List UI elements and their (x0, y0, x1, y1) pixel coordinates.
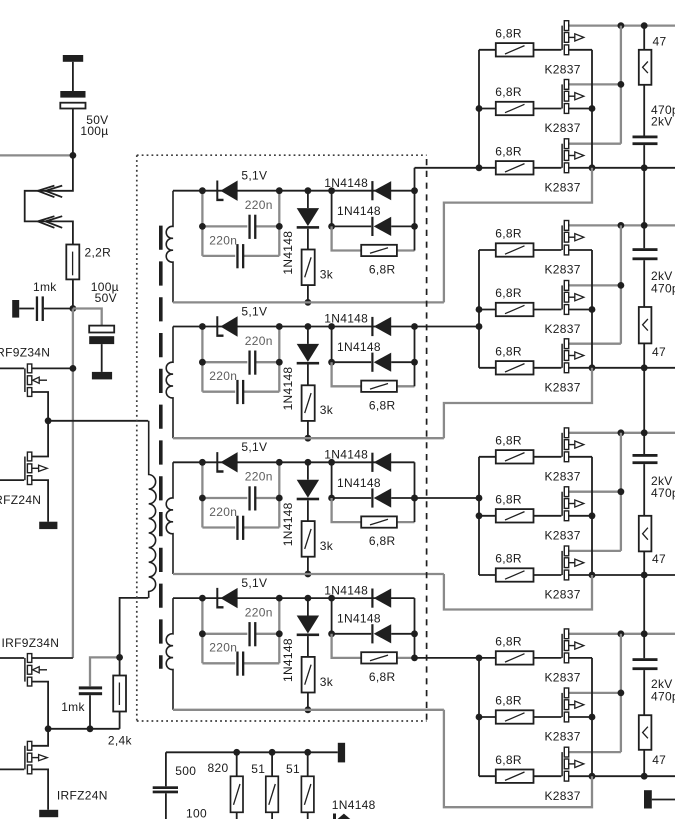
wire source rail group4 (569, 775, 675, 777)
wire bottom rail (173, 301, 444, 303)
transistor Q2 IRFZ24N (0, 479, 24, 481)
secondary winding L4 (166, 598, 173, 710)
svg-text:220n: 220n (209, 641, 237, 655)
wire drain bus group1 (620, 26, 622, 144)
capacitor C2b 220n (236, 380, 238, 404)
node (305, 706, 312, 713)
node (199, 495, 206, 502)
wire gate bus group4 (478, 658, 480, 776)
wire drain bus group2 (620, 225, 622, 343)
svg-text:K2837: K2837 (545, 789, 581, 803)
svg-text:47: 47 (652, 552, 666, 566)
wire 6,8R branch (332, 634, 361, 658)
wire drain bus group4 (620, 634, 622, 752)
node D (45, 417, 52, 424)
node (589, 105, 596, 112)
wire Q4 drain (32, 729, 48, 746)
wire branch A (202, 497, 247, 499)
svg-text:6,8R: 6,8R (495, 753, 522, 767)
diode D2c 1N4148 (371, 317, 373, 336)
wire branch B (202, 255, 235, 257)
wire drain lead M2 (569, 491, 621, 493)
wire (73, 309, 102, 326)
resistor R2b 6,8R (361, 381, 397, 392)
svg-text:100: 100 (186, 807, 207, 819)
transistor g2m3 K2837 (534, 367, 562, 369)
wire branch vertical left (201, 462, 203, 527)
svg-text:1N4148: 1N4148 (337, 612, 381, 626)
node gate bus (476, 714, 483, 721)
wire branch vertical right (278, 462, 280, 527)
node (589, 164, 596, 171)
transistor g1m3 K2837 (534, 167, 562, 169)
wire top rail (173, 326, 415, 328)
node B (70, 305, 77, 312)
wire source bus group3 (591, 457, 593, 575)
resistor 51 first (271, 752, 273, 776)
transistor g4m3 K2837 (534, 775, 562, 777)
svg-text:K2837: K2837 (545, 263, 581, 277)
wire feed block3 (415, 497, 480, 499)
svg-text:51: 51 (286, 762, 300, 776)
svg-text:K2837: K2837 (545, 588, 581, 602)
wire feed block1 (415, 167, 480, 169)
svg-text:1N4148: 1N4148 (281, 502, 295, 546)
wire diode branch (332, 191, 372, 227)
wire bottom rail (173, 573, 444, 575)
diode D4d 1N4148 (371, 624, 373, 643)
svg-text:47: 47 (652, 345, 666, 359)
node (618, 81, 625, 88)
wire 6,8R branch (332, 362, 361, 386)
capacitor C3b 220n (236, 516, 238, 540)
node (328, 595, 335, 602)
wire source lead M1 (569, 657, 592, 659)
wire gate bus group2 (478, 250, 480, 368)
wire 6,8R branch (332, 226, 361, 250)
node gate bus (476, 164, 483, 171)
wire bottom rail (173, 709, 444, 711)
wire bus link 2-3 (643, 368, 645, 433)
wire (643, 670, 645, 715)
node F (87, 725, 94, 732)
diode bottom clipped (333, 814, 336, 819)
secondary winding L1 (166, 191, 173, 303)
wire main vertical (72, 309, 74, 659)
wire branch B (202, 662, 235, 664)
wire (19, 308, 34, 310)
wire Q4 source (32, 769, 48, 809)
node gate bus (476, 105, 483, 112)
transistor g1m2 K2837 (534, 108, 562, 110)
node C (70, 365, 77, 372)
node (305, 435, 312, 442)
wire branch B (202, 391, 235, 393)
node (328, 187, 335, 194)
wire (643, 433, 645, 454)
node (199, 359, 206, 366)
node gate bus (476, 495, 483, 502)
resistor 6,8R gate g3m3 (479, 574, 496, 576)
wire right vertical (414, 168, 416, 251)
wire primary bottom link (120, 598, 149, 658)
wire gate rail bottom (48, 728, 120, 730)
wire drain lead M3 (569, 343, 621, 345)
svg-text:6,8R: 6,8R (495, 26, 522, 40)
wire Q3 drain (32, 657, 73, 659)
wire Q1 drain (32, 367, 73, 369)
wire drain lead M2 (569, 284, 621, 286)
node (618, 630, 625, 637)
wire Q3 source (32, 682, 48, 729)
wire (643, 85, 645, 136)
ground (39, 810, 58, 817)
node (199, 630, 206, 637)
svg-text:6,8R: 6,8R (369, 398, 396, 412)
svg-text:IRF9Z34N: IRF9Z34N (2, 636, 60, 650)
node (641, 773, 648, 780)
wire (165, 752, 167, 786)
node (618, 488, 625, 495)
node (199, 595, 206, 602)
wire (643, 260, 645, 307)
wire return group3 (444, 574, 592, 610)
node (199, 187, 206, 194)
node (199, 323, 206, 330)
wire diode branch (332, 327, 372, 363)
diode D1b 1N4148 vertical (307, 191, 309, 208)
diode D3d 1N4148 (371, 488, 373, 507)
wire branch vertical left (201, 191, 203, 256)
svg-text:1N4148: 1N4148 (337, 340, 381, 354)
diode D4b 1N4148 vertical (307, 598, 309, 615)
svg-text:5,1V: 5,1V (241, 576, 267, 590)
resistor 6,8R gate g1m3 (479, 167, 496, 169)
resistor 6,8R gate g3m1 (479, 456, 496, 458)
capacitor C2a 220n (248, 351, 250, 375)
wire (165, 793, 167, 819)
svg-text:220n: 220n (209, 233, 237, 247)
svg-text:6,8R: 6,8R (495, 85, 522, 99)
svg-text:100µ: 100µ (80, 124, 108, 138)
ground (92, 372, 112, 380)
svg-text:1N4148: 1N4148 (324, 583, 368, 597)
capacitor 500 (153, 786, 178, 789)
node (618, 222, 625, 229)
wire (44, 308, 73, 310)
node (641, 164, 648, 171)
node (328, 495, 335, 502)
node (305, 571, 312, 578)
wire return group1 (444, 168, 592, 303)
resistor R2a 3k (307, 365, 309, 386)
wire (643, 343, 645, 367)
transistor Q4 IRFZ24N (0, 768, 24, 770)
transistor g3m3 K2837 (534, 574, 562, 576)
node (305, 323, 312, 330)
wire source lead M1 (569, 49, 592, 51)
svg-text:2,2R: 2,2R (85, 246, 112, 260)
svg-text:220n: 220n (245, 470, 273, 484)
capacitor C1b 220n (236, 244, 238, 268)
resistor 6,8R gate g2m2 (479, 309, 496, 311)
svg-text:5,1V: 5,1V (241, 169, 267, 183)
svg-text:6,8R: 6,8R (495, 552, 522, 566)
svg-text:470p: 470p (651, 486, 675, 500)
svg-text:K2837: K2837 (545, 469, 581, 483)
transistor g3m1 K2837 (534, 456, 562, 458)
svg-text:220n: 220n (245, 334, 273, 348)
node (641, 429, 648, 436)
wire 6,8R branch (332, 498, 361, 522)
node (305, 187, 312, 194)
wire diode branch (332, 598, 372, 634)
wire to transformer primary (48, 420, 148, 422)
wire return group4 (444, 710, 592, 807)
wire source rail group2 (569, 367, 675, 369)
node (618, 690, 625, 697)
svg-text:1N4148: 1N4148 (281, 231, 295, 275)
wire source bus group2 (591, 250, 593, 368)
wire source lead M1 (569, 249, 592, 251)
capacitor 470p group4 (633, 658, 658, 661)
capacitor C4b 220n (236, 652, 238, 676)
wire branch vertical right (278, 191, 280, 256)
capacitor C4a 220n (248, 622, 250, 646)
diode D3c 1N4148 (371, 453, 373, 472)
wire (643, 225, 645, 248)
svg-text:3k: 3k (320, 539, 334, 553)
transformer primary winding (149, 421, 156, 598)
node (199, 459, 206, 466)
wire source lead M2 (569, 108, 592, 110)
svg-text:6,8R: 6,8R (495, 227, 522, 241)
wire branch A (202, 225, 247, 227)
capacitor 1mk lower (79, 686, 102, 689)
wire source lead M1 (569, 456, 592, 458)
zener D1a 5,1V (216, 181, 223, 202)
resistor R4a 3k (307, 636, 309, 657)
wire branch A (202, 361, 247, 363)
node (269, 749, 276, 756)
wire to left edge (0, 154, 73, 156)
resistor 6,8R gate g2m1 (479, 249, 496, 251)
wire branch B (202, 526, 235, 528)
terminal bar (12, 300, 19, 318)
wire bottom rail (173, 437, 444, 439)
wire branch A (202, 633, 247, 635)
wire drain bus group3 (620, 433, 622, 551)
resistor 6,8R gate g1m2 (479, 108, 496, 110)
svg-text:47: 47 (652, 753, 666, 767)
secondary winding L2 (166, 327, 173, 439)
svg-text:K2837: K2837 (545, 528, 581, 542)
wire loop with arrows (25, 155, 73, 244)
wire branch vertical right (278, 327, 280, 392)
node (589, 306, 596, 313)
svg-text:1mk: 1mk (61, 700, 85, 714)
wire diode branch (332, 462, 372, 498)
wire (652, 799, 675, 801)
resistor 51 second (307, 752, 309, 776)
wire Q1 source (32, 392, 48, 421)
svg-text:6,8R: 6,8R (369, 263, 396, 277)
node (233, 749, 240, 756)
arrow chevrons upper (38, 186, 55, 198)
wire bottom rail (166, 751, 338, 753)
node (305, 459, 312, 466)
wire gate bus group1 (478, 50, 480, 168)
transistor g2m1 K2837 (534, 249, 562, 251)
svg-text:IRF9Z34N: IRF9Z34N (0, 346, 50, 360)
resistor R1a 3k (307, 229, 309, 250)
wire (72, 279, 74, 308)
svg-text:470p: 470p (651, 690, 675, 704)
svg-text:1N4148: 1N4148 (324, 176, 368, 190)
diode D1d 1N4148 (371, 217, 373, 236)
svg-text:500: 500 (175, 764, 196, 778)
wire branch vertical left (201, 598, 203, 663)
svg-text:5,1V: 5,1V (241, 440, 267, 454)
resistor 6,8R gate g1m1 (479, 49, 496, 51)
resistor R4b 6,8R (361, 652, 397, 663)
dashed enclosure box (137, 154, 427, 156)
node (641, 222, 648, 229)
wire branch vertical right (278, 598, 280, 663)
svg-text:220n: 220n (245, 198, 273, 212)
capacitor C2 100u 50V (89, 326, 114, 333)
svg-text:820: 820 (208, 761, 229, 775)
wire (119, 657, 121, 675)
node (641, 22, 648, 29)
node (589, 512, 596, 519)
wire (72, 109, 74, 156)
node gate bus (476, 655, 483, 662)
wire drain rail group2 (569, 224, 675, 226)
arrow chevrons lower (38, 216, 55, 228)
svg-text:220n: 220n (209, 369, 237, 383)
node (641, 572, 648, 579)
node A (70, 152, 77, 159)
resistor 6,8R gate g4m3 (479, 775, 496, 777)
node (305, 595, 312, 602)
terminal bottom right (644, 790, 652, 808)
wire Q2 drain (32, 421, 48, 457)
node (618, 282, 625, 289)
wire drain rail group1 (569, 24, 675, 26)
zener D4a 5,1V (216, 588, 223, 609)
wire Q2 source (32, 480, 48, 522)
diode D4c 1N4148 (371, 589, 373, 608)
svg-text:K2837: K2837 (545, 180, 581, 194)
node (328, 359, 335, 366)
capacitor 470p group3 (633, 454, 658, 457)
capacitor 470p group2 (633, 248, 658, 251)
svg-text:50V: 50V (95, 291, 117, 305)
zener D3a 5,1V (216, 452, 223, 473)
wire source bus group1 (591, 50, 593, 168)
svg-text:2,4k: 2,4k (108, 734, 133, 748)
transistor Q3 IRF9Z34N (0, 657, 24, 659)
node (589, 773, 596, 780)
svg-text:3k: 3k (320, 267, 334, 281)
wire right vertical (414, 327, 416, 387)
wire top rail (173, 190, 415, 192)
resistor 2,4k (113, 676, 126, 712)
wire source lead M2 (569, 309, 592, 311)
resistor R1b 6,8R (361, 245, 397, 256)
svg-text:6,8R: 6,8R (495, 344, 522, 358)
svg-text:470p: 470p (651, 281, 675, 295)
svg-text:220n: 220n (209, 505, 237, 519)
wire (89, 695, 91, 729)
wire gate bus group3 (478, 457, 480, 575)
svg-text:1mk: 1mk (33, 280, 57, 294)
wire (101, 344, 103, 372)
wire drain rail group4 (569, 633, 675, 635)
node gate bus (476, 512, 483, 519)
terminal bar bottom (338, 743, 345, 763)
resistor 47 group1 (639, 50, 652, 85)
wire drain rail group3 (569, 432, 675, 434)
transistor g2m2 K2837 (534, 309, 562, 311)
node (589, 714, 596, 721)
capacitor 1mk (36, 296, 38, 321)
svg-text:1N4148: 1N4148 (337, 204, 381, 218)
svg-text:K2837: K2837 (545, 62, 581, 76)
wire (643, 145, 645, 168)
wire branch vertical left (201, 327, 203, 392)
node (618, 22, 625, 29)
resistor 6,8R gate g4m1 (479, 657, 496, 659)
wire drain lead M3 (569, 143, 621, 145)
svg-text:6,8R: 6,8R (495, 144, 522, 158)
svg-text:6,8R: 6,8R (495, 286, 522, 300)
resistor R3b 6,8R (361, 516, 397, 527)
resistor 6,8R gate g3m2 (479, 515, 496, 517)
wire (643, 750, 645, 776)
wire source rail group3 (569, 574, 675, 576)
svg-text:2kV: 2kV (651, 114, 673, 128)
wire top rail (173, 597, 415, 599)
svg-text:1N4148: 1N4148 (332, 798, 376, 812)
svg-text:6,8R: 6,8R (495, 694, 522, 708)
node (328, 223, 335, 230)
node (328, 459, 335, 466)
zener D2a 5,1V (216, 316, 223, 337)
wire source bus group4 (591, 658, 593, 776)
svg-text:IRFZ24N: IRFZ24N (57, 789, 108, 803)
resistor 47 group3 (639, 516, 652, 552)
node gate bus (476, 323, 483, 330)
wire (90, 657, 120, 686)
node (589, 364, 596, 371)
svg-text:1N4148: 1N4148 (281, 638, 295, 682)
node feed3 (411, 495, 418, 502)
capacitor C3a 220n (248, 486, 250, 510)
wire drain lead M2 (569, 692, 621, 694)
wire drain lead M3 (569, 550, 621, 552)
diode D3b 1N4148 vertical (307, 462, 309, 479)
node (641, 364, 648, 371)
svg-text:6,8R: 6,8R (369, 670, 396, 684)
svg-text:1N4148: 1N4148 (324, 312, 368, 326)
wire feed block2 (415, 326, 480, 328)
resistor 2,2R (66, 245, 79, 280)
svg-text:K2837: K2837 (545, 730, 581, 744)
wire drain lead M2 (569, 83, 621, 85)
wire (643, 551, 645, 575)
